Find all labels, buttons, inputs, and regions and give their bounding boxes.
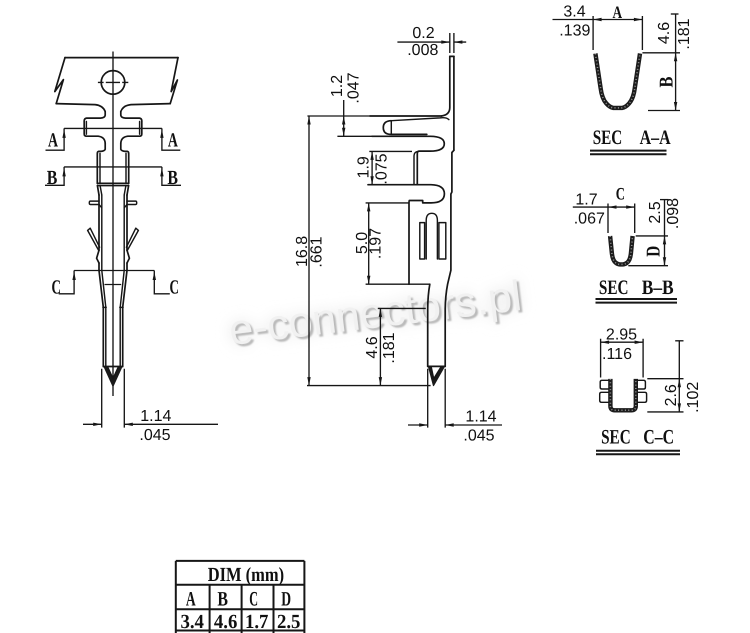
table values 3.4 4.6 1.7 2.5 [180, 611, 300, 633]
svg-text:B: B [217, 588, 228, 610]
svg-text:.181: .181 [381, 332, 398, 363]
svg-text:.075: .075 [374, 153, 391, 184]
small side tabs [89, 201, 136, 208]
svg-text:2.5: 2.5 [647, 201, 664, 223]
svg-text:.045: .045 [139, 427, 170, 444]
SEC C-C cross-section (U channel with side plates, hatched) [610, 379, 635, 410]
dimension 16.8/.661 (overall length) [294, 116, 325, 386]
flange underside / hook top [391, 118, 449, 121]
crimp tab 1 (side view, rounded right cap) [337, 136, 444, 184]
label A left [46, 128, 66, 151]
step line at pin root (side view) [366, 283, 430, 285]
section line A-A [64, 127, 162, 129]
section line C-C [74, 270, 154, 272]
svg-text:A: A [186, 588, 196, 610]
svg-text:A: A [168, 130, 178, 152]
dimension 0.2/.008 (strip thickness) [397, 25, 466, 59]
label C right [153, 271, 179, 299]
svg-text:SEC: SEC [593, 127, 623, 149]
svg-text:1.7: 1.7 [245, 611, 269, 633]
label A right [160, 128, 180, 151]
svg-text:.139: .139 [559, 23, 590, 40]
dimension B 4.6/.181 (section A-A heights) [642, 14, 693, 111]
svg-text:2.5: 2.5 [277, 611, 301, 633]
svg-text:3.4: 3.4 [563, 4, 585, 21]
svg-text:B: B [47, 167, 58, 189]
svg-text:DIM (mm): DIM (mm) [208, 564, 284, 586]
hook tab (rounded left end) [383, 121, 427, 135]
dimension 1.14/.045 (side view pin width) [408, 369, 502, 445]
dimension 2.6/.102 (section C-C height) [647, 341, 702, 413]
svg-text:3.4: 3.4 [180, 611, 204, 633]
carrier strip (front view, with break lines) [55, 58, 178, 112]
svg-text:A: A [613, 2, 623, 22]
label B right [160, 167, 181, 189]
top flange line (side view) [307, 115, 441, 117]
right barb wing [126, 228, 138, 263]
pin point (front) [104, 367, 123, 387]
svg-text:.045: .045 [463, 427, 494, 444]
pin point (side view) [428, 367, 445, 386]
taper to pin [99, 270, 127, 307]
body back edge (side view) [445, 150, 454, 366]
svg-text:C: C [249, 588, 258, 610]
svg-text:C: C [169, 277, 179, 299]
dimension table borders [176, 561, 305, 633]
circle centerline dashes [98, 81, 128, 83]
caption SEC B-B [596, 277, 678, 302]
table letters A B C D [186, 588, 291, 610]
SEC A-A cross-section (U channel, hatched) [595, 54, 640, 108]
carrier strip edge (side view) [442, 56, 454, 150]
svg-text:C–C: C–C [643, 427, 674, 449]
svg-text:B: B [167, 167, 178, 189]
svg-text:B: B [656, 77, 677, 88]
svg-text:D: D [281, 588, 291, 610]
svg-text:SEC: SEC [599, 277, 629, 299]
dimension C 1.7/.067 [573, 184, 635, 233]
dimension 2.95/.116 [601, 327, 644, 378]
pin front edge (side view) [428, 284, 430, 366]
retention lance dome (side view) [426, 213, 437, 259]
svg-text:.661: .661 [308, 236, 325, 267]
caption SEC A-A [590, 127, 671, 154]
svg-text:.047: .047 [346, 72, 363, 103]
dimension 5.0/.197 [354, 203, 409, 284]
svg-text:.197: .197 [367, 228, 384, 259]
svg-text:4.6: 4.6 [214, 611, 238, 633]
svg-text:1.14: 1.14 [140, 408, 171, 425]
centerline (front view) [112, 52, 114, 397]
svg-text:1.2: 1.2 [329, 75, 346, 97]
svg-text:.116: .116 [602, 346, 632, 363]
svg-text:C: C [51, 277, 61, 299]
svg-text:.181: .181 [676, 18, 693, 49]
SEC B-B cross-section (small U, hatched) [610, 236, 633, 264]
left barb wing [88, 228, 100, 263]
pin shaft (front) [103, 307, 122, 366]
svg-text:1.9: 1.9 [356, 156, 373, 178]
pilot hole circle [101, 71, 125, 95]
svg-text:D: D [644, 246, 665, 257]
pin tip end line (side view) [428, 365, 446, 367]
side plates of section C-C [600, 380, 647, 402]
dimension 1.9/.075 [356, 151, 413, 184]
svg-text:0.2: 0.2 [412, 25, 434, 42]
svg-text:4.6: 4.6 [656, 22, 673, 44]
svg-text:1.14: 1.14 [465, 409, 496, 426]
lance side plates [420, 223, 446, 259]
svg-text:.067: .067 [574, 210, 605, 227]
dimension 1.2/.047 [329, 72, 363, 136]
svg-text:B–B: B–B [642, 277, 674, 299]
svg-text:.008: .008 [407, 42, 438, 59]
label C left [51, 271, 75, 299]
svg-text:2.95: 2.95 [606, 327, 637, 344]
dimension D 2.5/.098 (section B-B heights) [628, 198, 682, 266]
section A bump (wide part) [84, 121, 142, 143]
svg-text:1.7: 1.7 [575, 192, 597, 209]
svg-text:.098: .098 [665, 198, 682, 229]
svg-text:.102: .102 [685, 382, 702, 413]
bottom extension line (tip level) [307, 385, 431, 387]
table header DIM (mm) [208, 564, 284, 586]
dimension A 3.4/.139 [553, 2, 643, 50]
svg-text:A: A [48, 130, 58, 152]
neck to B box [97, 143, 128, 153]
section line B-B [64, 166, 162, 168]
B box (wire barrel front) [97, 153, 128, 185]
svg-text:2.6: 2.6 [663, 384, 680, 406]
svg-text:SEC: SEC [601, 427, 631, 449]
taper from box to tube [97, 186, 128, 195]
dimension 4.6/.181 (pin length, side) [364, 308, 426, 385]
center tick at C level [105, 284, 122, 286]
tube body [99, 195, 127, 270]
caption SEC C-C [596, 427, 680, 455]
svg-text:4.6: 4.6 [364, 336, 381, 358]
dimension 1.14/.045 (front view pin width) [83, 369, 218, 444]
crimp tab 2 (side view, rounded right cap with step) [368, 185, 444, 285]
svg-text:C: C [616, 184, 625, 204]
terminal neck below carrier [84, 112, 142, 122]
svg-text:A–A: A–A [640, 127, 671, 149]
label B left [45, 167, 66, 189]
